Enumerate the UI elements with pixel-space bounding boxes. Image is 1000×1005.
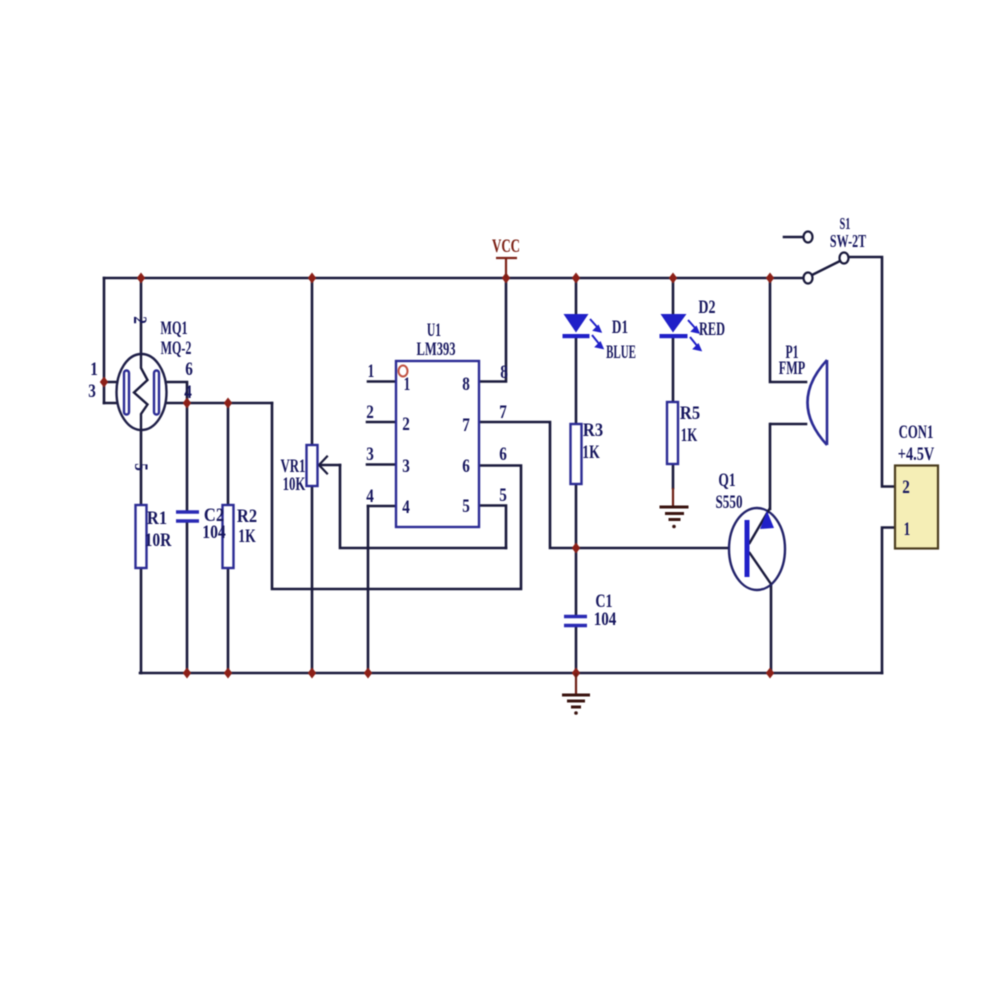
- svg-text:R2: R2: [237, 505, 257, 526]
- svg-text:1K: 1K: [681, 425, 698, 446]
- svg-text:1K: 1K: [238, 525, 256, 547]
- svg-text:U1: U1: [427, 320, 441, 341]
- svg-text:R3: R3: [583, 419, 603, 440]
- svg-text:6: 6: [499, 443, 507, 464]
- svg-text:R5: R5: [680, 402, 700, 423]
- svg-text:1: 1: [90, 358, 98, 379]
- svg-text:4: 4: [184, 381, 192, 402]
- svg-text:5: 5: [499, 484, 507, 505]
- svg-text:D1: D1: [612, 316, 628, 338]
- svg-text:6: 6: [462, 455, 470, 476]
- svg-text:5: 5: [462, 495, 470, 516]
- svg-text:MQ1: MQ1: [160, 319, 187, 339]
- svg-text:Q1: Q1: [718, 469, 735, 491]
- svg-text:CON1: CON1: [899, 422, 934, 443]
- svg-text:MQ-2: MQ-2: [161, 338, 192, 358]
- svg-text:4: 4: [402, 496, 410, 517]
- svg-text:+4.5V: +4.5V: [898, 443, 934, 464]
- svg-text:2: 2: [130, 316, 151, 324]
- svg-text:1K: 1K: [582, 441, 600, 463]
- svg-text:1: 1: [404, 373, 411, 395]
- svg-text:RED: RED: [699, 320, 725, 340]
- svg-text:4: 4: [366, 485, 374, 506]
- svg-text:1: 1: [368, 360, 375, 382]
- svg-text:10R: 10R: [145, 530, 172, 551]
- svg-text:2: 2: [902, 476, 910, 497]
- svg-text:104: 104: [594, 608, 617, 629]
- svg-text:SW-2T: SW-2T: [830, 232, 866, 252]
- svg-text:5: 5: [131, 463, 152, 471]
- svg-text:8: 8: [462, 373, 470, 394]
- svg-text:7: 7: [499, 401, 507, 422]
- svg-text:FMP: FMP: [779, 359, 806, 379]
- svg-text:8: 8: [500, 361, 508, 382]
- svg-text:S550: S550: [715, 491, 742, 513]
- svg-text:R1: R1: [147, 507, 167, 528]
- svg-text:3: 3: [402, 455, 410, 476]
- svg-text:6: 6: [185, 358, 193, 379]
- svg-text:104: 104: [202, 521, 226, 543]
- svg-text:2: 2: [402, 413, 410, 434]
- svg-text:BLUE: BLUE: [606, 342, 636, 363]
- svg-text:3: 3: [366, 443, 374, 464]
- svg-text:D2: D2: [698, 296, 715, 318]
- svg-text:LM393: LM393: [416, 340, 455, 360]
- svg-text:10K: 10K: [283, 474, 306, 495]
- svg-text:2: 2: [366, 401, 374, 422]
- svg-text:3: 3: [88, 380, 96, 401]
- svg-text:VCC: VCC: [492, 236, 520, 257]
- svg-text:1: 1: [904, 518, 911, 540]
- svg-text:7: 7: [462, 414, 470, 435]
